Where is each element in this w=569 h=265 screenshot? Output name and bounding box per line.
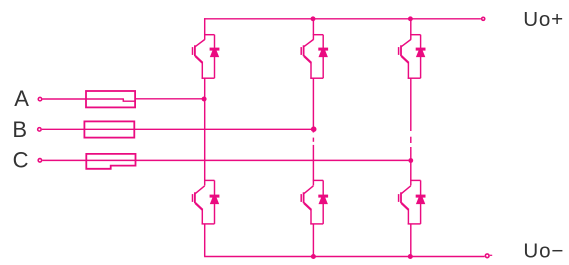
- junction: top rail / leg 2: [311, 16, 316, 21]
- wire: positive DC top rail: [204, 18, 481, 20]
- wire: leg3 from top rail to Q5: [410, 19, 412, 35]
- transistor Q4 (IGBT): [301, 180, 313, 225]
- wire: leg3 down to Q6 through phase C node: [410, 147, 412, 180]
- wire: leg1 Q1 emitter to phase A node: [204, 78, 206, 99]
- diode D4 (anti-parallel): [310, 180, 328, 224]
- transistor Q6 (IGBT): [399, 180, 411, 225]
- node: phase A junction: [202, 97, 207, 102]
- junction: bottom rail / leg 3: [408, 254, 413, 259]
- transistor Q5 (IGBT): [399, 34, 411, 79]
- wire: stub right of terminal Uo-: [490, 254, 492, 256]
- svg-text:B: B: [12, 117, 27, 142]
- wire: leg2 Q4 emitter to bottom rail: [312, 224, 314, 257]
- terminal Uo+: [482, 17, 485, 20]
- wire: leg2 stub below phase B node: [312, 129, 314, 132]
- node: phase B junction: [311, 126, 317, 132]
- wire: negative DC bottom rail: [204, 256, 485, 258]
- fuse FU3 (phase C, jogged bottom edge): [86, 154, 135, 169]
- terminal Uo-: [485, 254, 489, 258]
- wire: leg3 Q5 emitter down: [410, 78, 412, 131]
- terminal phase B: [38, 128, 42, 132]
- terminal phase A: [38, 97, 42, 101]
- wire: leg2 from top rail to Q3: [312, 19, 314, 35]
- diode D3 (anti-parallel): [310, 35, 328, 78]
- diode D2 (anti-parallel): [202, 180, 220, 224]
- wire: leg1 phase node down to Q2 (crosses B and C lines): [204, 99, 206, 180]
- wire: leg2 short dash segment: [312, 138, 314, 142]
- node: phase C junction: [408, 158, 413, 163]
- terminal phase C: [38, 159, 42, 163]
- diode D1 (anti-parallel): [202, 35, 220, 78]
- wire: phase C terminal to leg3 (through fuse): [42, 159, 411, 161]
- transistor Q3 (IGBT): [301, 34, 313, 79]
- wire: phase B terminal to leg2 (through fuse): [42, 128, 314, 130]
- svg-text:C: C: [13, 147, 29, 172]
- junction: top rail / leg 3: [408, 16, 413, 21]
- wire: leg3 short dash segment: [410, 137, 412, 143]
- wire: leg1 from top rail to Q1: [204, 18, 206, 35]
- svg-text:Uo−: Uo−: [523, 239, 564, 262]
- svg-text:A: A: [14, 86, 29, 111]
- svg-text:Uo+: Uo+: [523, 8, 564, 31]
- wire: leg2 Q3 emitter to phase B node: [312, 78, 314, 129]
- transistor Q1 (IGBT): [193, 34, 205, 79]
- diode D5 (anti-parallel): [408, 35, 426, 78]
- fuse FU1 (phase A): [86, 91, 135, 107]
- transistor Q2 (IGBT): [193, 180, 205, 225]
- wire: leg1 Q2 emitter to bottom rail: [204, 224, 206, 257]
- fuse FU2 (phase B): [84, 121, 134, 137]
- junction: bottom rail / leg 2: [311, 254, 316, 259]
- diode D6 (anti-parallel): [408, 180, 426, 224]
- wire: phase A terminal to fuse: [42, 98, 124, 100]
- wire: leg2 down to Q4 (crosses C line): [312, 145, 314, 181]
- wire: leg3 Q6 emitter to bottom rail: [410, 224, 412, 257]
- wire: jog inside fuse FU1: [123, 99, 135, 101]
- wire: phase A fuse to leg1: [135, 98, 204, 100]
